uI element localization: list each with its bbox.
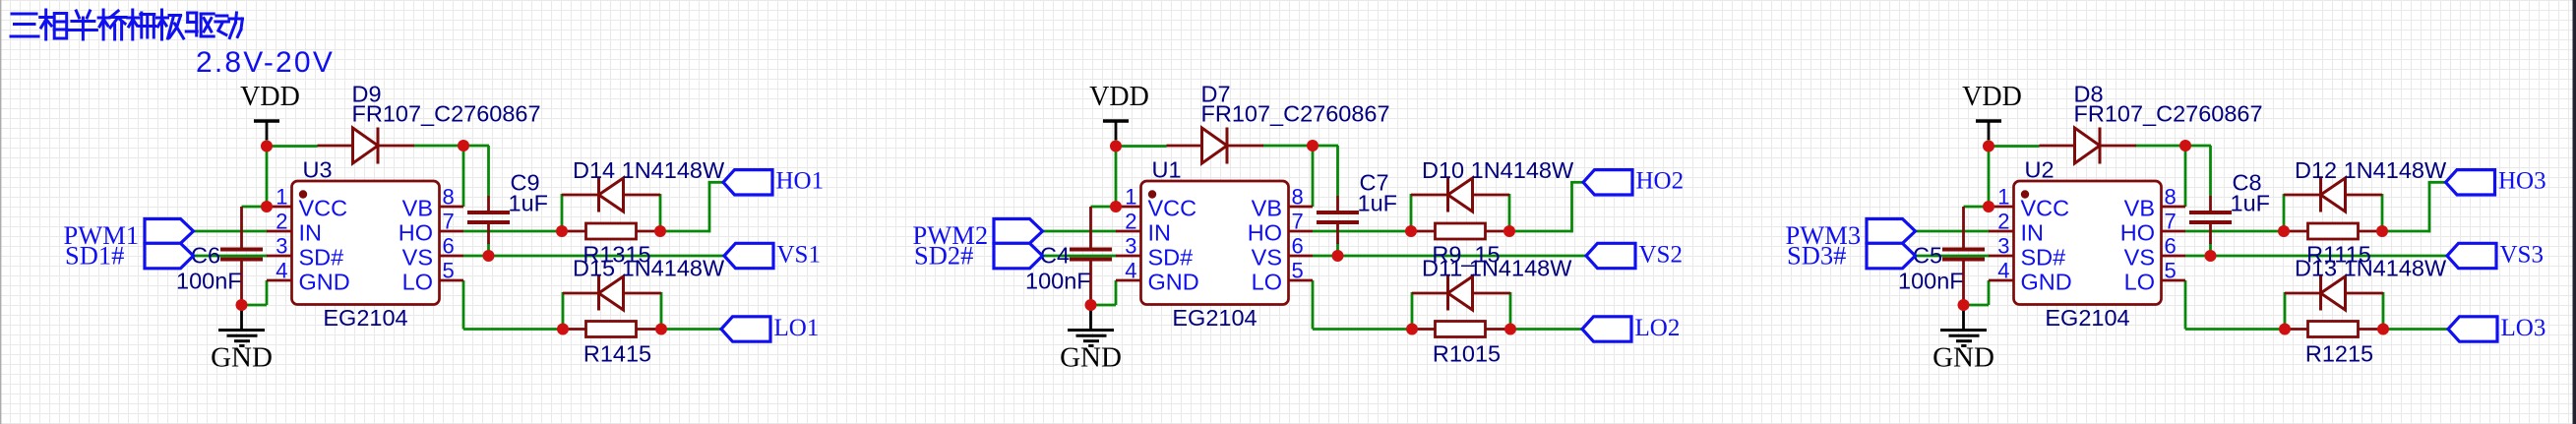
junction LO left — [2279, 324, 2291, 335]
sheet left edge — [0, 0, 1, 424]
svg-text:SD#: SD# — [2021, 245, 2066, 271]
wire VDD net vertical and to pin 1 — [266, 139, 269, 207]
svg-text:5: 5 — [443, 259, 455, 283]
wire diode cathode to VB node — [1262, 145, 1338, 148]
svg-text:FR107_C2760867: FR107_C2760867 — [2074, 101, 2263, 127]
junction LO right — [1504, 324, 1516, 335]
svg-text:7: 7 — [2165, 210, 2177, 234]
svg-text:100nF: 100nF — [176, 269, 242, 294]
junction VS-cap node — [483, 250, 495, 262]
wire D10 right riser — [1508, 194, 1511, 231]
wire HO riser vertical — [708, 182, 711, 232]
svg-text:HO: HO — [2120, 220, 2155, 246]
output port HO1 — [723, 168, 824, 195]
input port PWM2 — [913, 219, 1043, 251]
wire pin 1 to decoupling cap — [1091, 206, 1117, 209]
output port HO2 — [1583, 168, 1684, 195]
wire PWM1 input to pin 2 — [192, 230, 268, 233]
svg-text:U3: U3 — [303, 157, 333, 183]
wire VS net — [2185, 255, 2448, 258]
svg-text:GND: GND — [211, 342, 273, 374]
wire PWM3 input to pin 2 — [1914, 230, 1990, 233]
svg-text:4: 4 — [1997, 259, 2009, 283]
svg-text:6: 6 — [2165, 234, 2177, 259]
svg-text:LO: LO — [1252, 270, 1282, 295]
junction HO right — [2376, 225, 2388, 237]
resistor R1415 gate resistor — [563, 322, 661, 367]
junction HO left — [1405, 225, 1417, 237]
svg-text:GND: GND — [2021, 270, 2072, 295]
junction VB node — [458, 140, 469, 151]
wire VDD net vertical and to pin 1 — [1115, 139, 1118, 207]
svg-text:SD3#: SD3# — [1787, 241, 1846, 271]
resistor R1315 gate resistor — [562, 223, 660, 268]
svg-text:VS2: VS2 — [1639, 241, 1683, 268]
wire VS net — [1313, 255, 1587, 258]
wire VB node down to pin 8 — [462, 146, 465, 207]
svg-text:C6: C6 — [191, 243, 220, 269]
svg-text:HO3: HO3 — [2498, 168, 2546, 195]
ground symbol — [211, 305, 273, 374]
svg-text:U1: U1 — [1152, 157, 1182, 183]
schematic title 三相半桥栅极驱动 — [11, 10, 242, 39]
wire ground link — [1090, 304, 1117, 307]
wire pin 1 to decoupling cap — [1964, 206, 1990, 209]
svg-text:1uF: 1uF — [2231, 191, 2271, 216]
wire HO riser vertical — [1570, 182, 1573, 232]
capacitor C5 100nF decoupling — [1898, 207, 1985, 305]
svg-text:HO: HO — [1248, 220, 1282, 246]
svg-text:VCC: VCC — [1148, 196, 1197, 221]
svg-text:2.8V-20V: 2.8V-20V — [196, 46, 335, 79]
svg-text:LO3: LO3 — [2501, 315, 2546, 341]
svg-text:100nF: 100nF — [1898, 269, 1964, 294]
junction VDD node — [261, 141, 273, 152]
junction pin 1 node — [261, 201, 273, 212]
svg-text:7: 7 — [1292, 210, 1304, 234]
svg-text:R1215: R1215 — [2305, 341, 2373, 367]
wire pin 4 to ground node — [1988, 280, 1991, 305]
wire PWM2 input to pin 2 — [1041, 230, 1117, 233]
resistor R1015 gate resistor — [1412, 322, 1510, 367]
svg-text:1: 1 — [1125, 185, 1136, 210]
svg-text:R1015: R1015 — [1433, 341, 1501, 367]
junction HO left — [2278, 225, 2290, 237]
svg-text:IN: IN — [299, 220, 323, 246]
wire SD2# input to pin 3 — [1041, 255, 1117, 258]
svg-text:VB: VB — [402, 196, 433, 221]
svg-text:VS: VS — [2124, 245, 2155, 271]
wire LO resistor to LO3 flag — [2383, 328, 2449, 331]
power VDD symbol — [240, 82, 300, 140]
svg-text:8: 8 — [1292, 185, 1304, 210]
junction VDD node — [1110, 141, 1122, 152]
wire SD3# input to pin 3 — [1914, 255, 1990, 258]
svg-text:C4: C4 — [1040, 243, 1070, 269]
svg-text:VB: VB — [1252, 196, 1282, 221]
wire VDD net vertical and to pin 1 — [1988, 139, 1991, 207]
svg-text:D12 1N4148W: D12 1N4148W — [2295, 157, 2447, 183]
wire bootstrap cap top lead — [2209, 146, 2212, 196]
svg-text:D11 1N4148W: D11 1N4148W — [1422, 256, 1572, 281]
IC U1 EG2104 gate driver — [1116, 157, 1313, 332]
svg-text:VCC: VCC — [299, 196, 348, 221]
junction pin 1 node — [1983, 201, 1994, 212]
junction LO right — [655, 324, 667, 335]
svg-text:C5: C5 — [1913, 243, 1942, 269]
wire HO pin 7 to resistor — [2185, 230, 2284, 233]
wire HO resistor to flag riser — [1509, 230, 1572, 233]
svg-text:1uF: 1uF — [509, 191, 549, 216]
svg-text:2: 2 — [1997, 210, 2009, 234]
junction ground node — [1958, 299, 1970, 311]
svg-text:LO: LO — [402, 270, 433, 295]
svg-text:GND: GND — [1060, 342, 1122, 374]
wire SD1# input to pin 3 — [192, 255, 268, 258]
capacitor C7 1uF bootstrap — [1317, 170, 1397, 245]
input port SD3# — [1787, 241, 1916, 271]
wire D12 left riser — [2283, 194, 2286, 231]
svg-text:3: 3 — [1125, 234, 1136, 259]
junction pin 1 node — [1110, 201, 1122, 212]
svg-text:GND: GND — [1932, 342, 1994, 374]
resistor R1115 gate resistor — [2284, 223, 2382, 268]
wire HO riser vertical — [2428, 182, 2431, 232]
wire ground link — [241, 304, 268, 307]
wire LO resistor to LO1 flag — [661, 328, 722, 331]
wire VS net — [463, 255, 725, 258]
wire ground link — [1963, 304, 1990, 307]
svg-text:VCC: VCC — [2021, 196, 2070, 221]
wire HO riser to HO1 flag — [708, 181, 724, 184]
capacitor C8 1uF bootstrap — [2189, 170, 2270, 245]
output port HO3 — [2446, 168, 2546, 195]
wire D13 right riser — [2382, 292, 2385, 330]
diode D15 1N4148W — [563, 256, 725, 311]
diode D9 FR107 bootstrap — [318, 82, 541, 164]
wire HO resistor to flag riser — [660, 230, 709, 233]
output port VS2 — [1586, 241, 1683, 268]
wire LO pin 5 down — [462, 280, 465, 330]
junction HO left — [556, 225, 568, 237]
svg-text:LO1: LO1 — [774, 315, 820, 341]
diode D10 1N4148W — [1411, 157, 1574, 212]
junction HO right — [654, 225, 666, 237]
junction VB node — [1307, 140, 1319, 151]
capacitor C6 100nF decoupling — [176, 207, 263, 305]
svg-text:IN: IN — [2021, 220, 2045, 246]
wire D14 left riser — [561, 194, 564, 231]
IC U2 EG2104 gate driver — [1989, 157, 2185, 332]
junction VS-cap node — [1332, 250, 1344, 262]
input port SD1# — [65, 241, 194, 271]
output port LO1 — [721, 315, 819, 341]
wire LO pin 5 down — [1312, 280, 1315, 330]
input port PWM3 — [1786, 219, 1916, 251]
wire D11 left riser — [1411, 292, 1414, 330]
capacitor C4 100nF decoupling — [1025, 207, 1112, 305]
svg-text:GND: GND — [1148, 270, 1199, 295]
power VDD symbol — [1089, 82, 1149, 140]
svg-text:VDD: VDD — [1089, 82, 1149, 112]
svg-text:100nF: 100nF — [1025, 269, 1091, 294]
wire VB node down to pin 8 — [2184, 146, 2187, 207]
junction LO left — [557, 324, 569, 335]
output port VS1 — [724, 241, 821, 268]
svg-text:GND: GND — [299, 270, 350, 295]
svg-text:IN: IN — [1148, 220, 1172, 246]
svg-text:5: 5 — [2165, 259, 2177, 283]
svg-text:D14 1N4148W: D14 1N4148W — [573, 157, 725, 183]
ground symbol — [1060, 305, 1122, 374]
svg-text:1: 1 — [276, 185, 287, 210]
input port PWM1 — [64, 219, 194, 251]
wire LO horizontal to resistor — [1313, 328, 1412, 331]
wire VB node down to pin 8 — [1312, 146, 1315, 207]
wire LO horizontal to resistor — [2185, 328, 2285, 331]
svg-text:D15 1N4148W: D15 1N4148W — [573, 256, 725, 281]
junction ground node — [236, 299, 248, 311]
svg-text:6: 6 — [1292, 234, 1304, 259]
svg-text:SD#: SD# — [299, 245, 344, 271]
wire HO resistor to flag riser — [2382, 230, 2429, 233]
wire bootstrap cap bottom to VS — [487, 243, 490, 257]
junction LO left — [1406, 324, 1418, 335]
diode D8 FR107 bootstrap — [2040, 82, 2263, 164]
wire diode cathode to VB node — [413, 145, 489, 148]
wire HO riser to HO2 flag — [1570, 181, 1584, 184]
wire D15 right riser — [660, 292, 663, 330]
svg-text:3: 3 — [276, 234, 287, 259]
junction VDD node — [1983, 141, 1994, 152]
svg-text:HO1: HO1 — [776, 168, 825, 195]
svg-text:4: 4 — [276, 259, 287, 283]
svg-text:LO2: LO2 — [1635, 315, 1681, 341]
junction ground node — [1085, 299, 1097, 311]
wire HO pin 7 to resistor — [463, 230, 562, 233]
wire bootstrap cap bottom to VS — [2209, 243, 2212, 257]
svg-text:8: 8 — [443, 185, 455, 210]
svg-text:LO: LO — [2124, 270, 2155, 295]
svg-text:2: 2 — [1125, 210, 1136, 234]
wire LO horizontal to resistor — [463, 328, 563, 331]
svg-text:VS3: VS3 — [2500, 241, 2544, 268]
wire pin 4 to ground node — [266, 280, 269, 305]
wire LO pin 5 down — [2184, 280, 2187, 330]
svg-text:D13 1N4148W: D13 1N4148W — [2295, 256, 2447, 281]
svg-text:EG2104: EG2104 — [2045, 305, 2129, 331]
svg-text:VS: VS — [1252, 245, 1282, 271]
wire VDD to diode anode — [266, 145, 318, 148]
sheet right edge — [2573, 0, 2576, 424]
svg-text:U2: U2 — [2025, 157, 2055, 183]
wire HO riser to HO3 flag — [2428, 181, 2447, 184]
svg-text:EG2104: EG2104 — [1172, 305, 1257, 331]
wire bootstrap cap top lead — [487, 146, 490, 196]
voltage note 2.8V-20V — [196, 46, 335, 79]
svg-text:7: 7 — [443, 210, 455, 234]
wire bootstrap cap bottom to VS — [1336, 243, 1339, 257]
svg-text:VS: VS — [402, 245, 433, 271]
diode D14 1N4148W — [562, 157, 725, 212]
output port LO3 — [2448, 315, 2545, 341]
diode D12 1N4148W — [2284, 157, 2447, 212]
output port LO2 — [1582, 315, 1680, 341]
wire VDD to diode anode — [1115, 145, 1167, 148]
wire D10 left riser — [1410, 194, 1413, 231]
svg-text:FR107_C2760867: FR107_C2760867 — [352, 101, 541, 127]
svg-text:VB: VB — [2124, 196, 2155, 221]
wire VDD to diode anode — [1988, 145, 2040, 148]
wire pin 1 to decoupling cap — [242, 206, 268, 209]
wire diode cathode to VB node — [2135, 145, 2211, 148]
wire LO resistor to LO2 flag — [1510, 328, 1583, 331]
svg-text:SD2#: SD2# — [914, 241, 973, 271]
capacitor C9 1uF bootstrap — [467, 170, 548, 245]
svg-text:HO2: HO2 — [1636, 168, 1685, 195]
svg-text:SD#: SD# — [1148, 245, 1194, 271]
junction LO right — [2377, 324, 2389, 335]
wire HO pin 7 to resistor — [1313, 230, 1411, 233]
diode D13 1N4148W — [2285, 256, 2447, 311]
svg-text:5: 5 — [1292, 259, 1304, 283]
svg-text:1uF: 1uF — [1358, 191, 1398, 216]
diode D11 1N4148W — [1412, 256, 1572, 311]
ground symbol — [1932, 305, 1994, 374]
wire bootstrap cap top lead — [1336, 146, 1339, 196]
junction HO right — [1503, 225, 1515, 237]
svg-text:4: 4 — [1125, 259, 1136, 283]
output port VS3 — [2447, 241, 2544, 268]
input port SD2# — [914, 241, 1043, 271]
svg-text:2: 2 — [276, 210, 287, 234]
wire D11 right riser — [1509, 292, 1512, 330]
svg-text:D10 1N4148W: D10 1N4148W — [1422, 157, 1574, 183]
svg-text:VDD: VDD — [240, 82, 300, 112]
resistor R9_15 gate resistor — [1411, 223, 1509, 268]
svg-text:VS1: VS1 — [777, 241, 821, 268]
junction VB node — [2179, 140, 2191, 151]
svg-text:VDD: VDD — [1962, 82, 2022, 112]
power VDD symbol — [1962, 82, 2022, 140]
wire D14 right riser — [659, 194, 662, 231]
wire D12 right riser — [2381, 194, 2384, 231]
svg-text:6: 6 — [443, 234, 455, 259]
diode D7 FR107 bootstrap — [1167, 82, 1390, 164]
svg-text:R1415: R1415 — [583, 341, 651, 367]
svg-text:8: 8 — [2165, 185, 2177, 210]
svg-text:SD1#: SD1# — [65, 241, 124, 271]
svg-text:HO: HO — [399, 220, 433, 246]
wire pin 4 to ground node — [1115, 280, 1118, 305]
wire D13 left riser — [2284, 292, 2287, 330]
IC U3 EG2104 gate driver — [267, 157, 463, 332]
svg-text:3: 3 — [1997, 234, 2009, 259]
svg-text:EG2104: EG2104 — [323, 305, 407, 331]
resistor R1215 gate resistor — [2285, 322, 2383, 367]
svg-text:1: 1 — [1997, 185, 2009, 210]
svg-text:FR107_C2760867: FR107_C2760867 — [1201, 101, 1390, 127]
wire D15 left riser — [562, 292, 565, 330]
junction VS-cap node — [2205, 250, 2217, 262]
